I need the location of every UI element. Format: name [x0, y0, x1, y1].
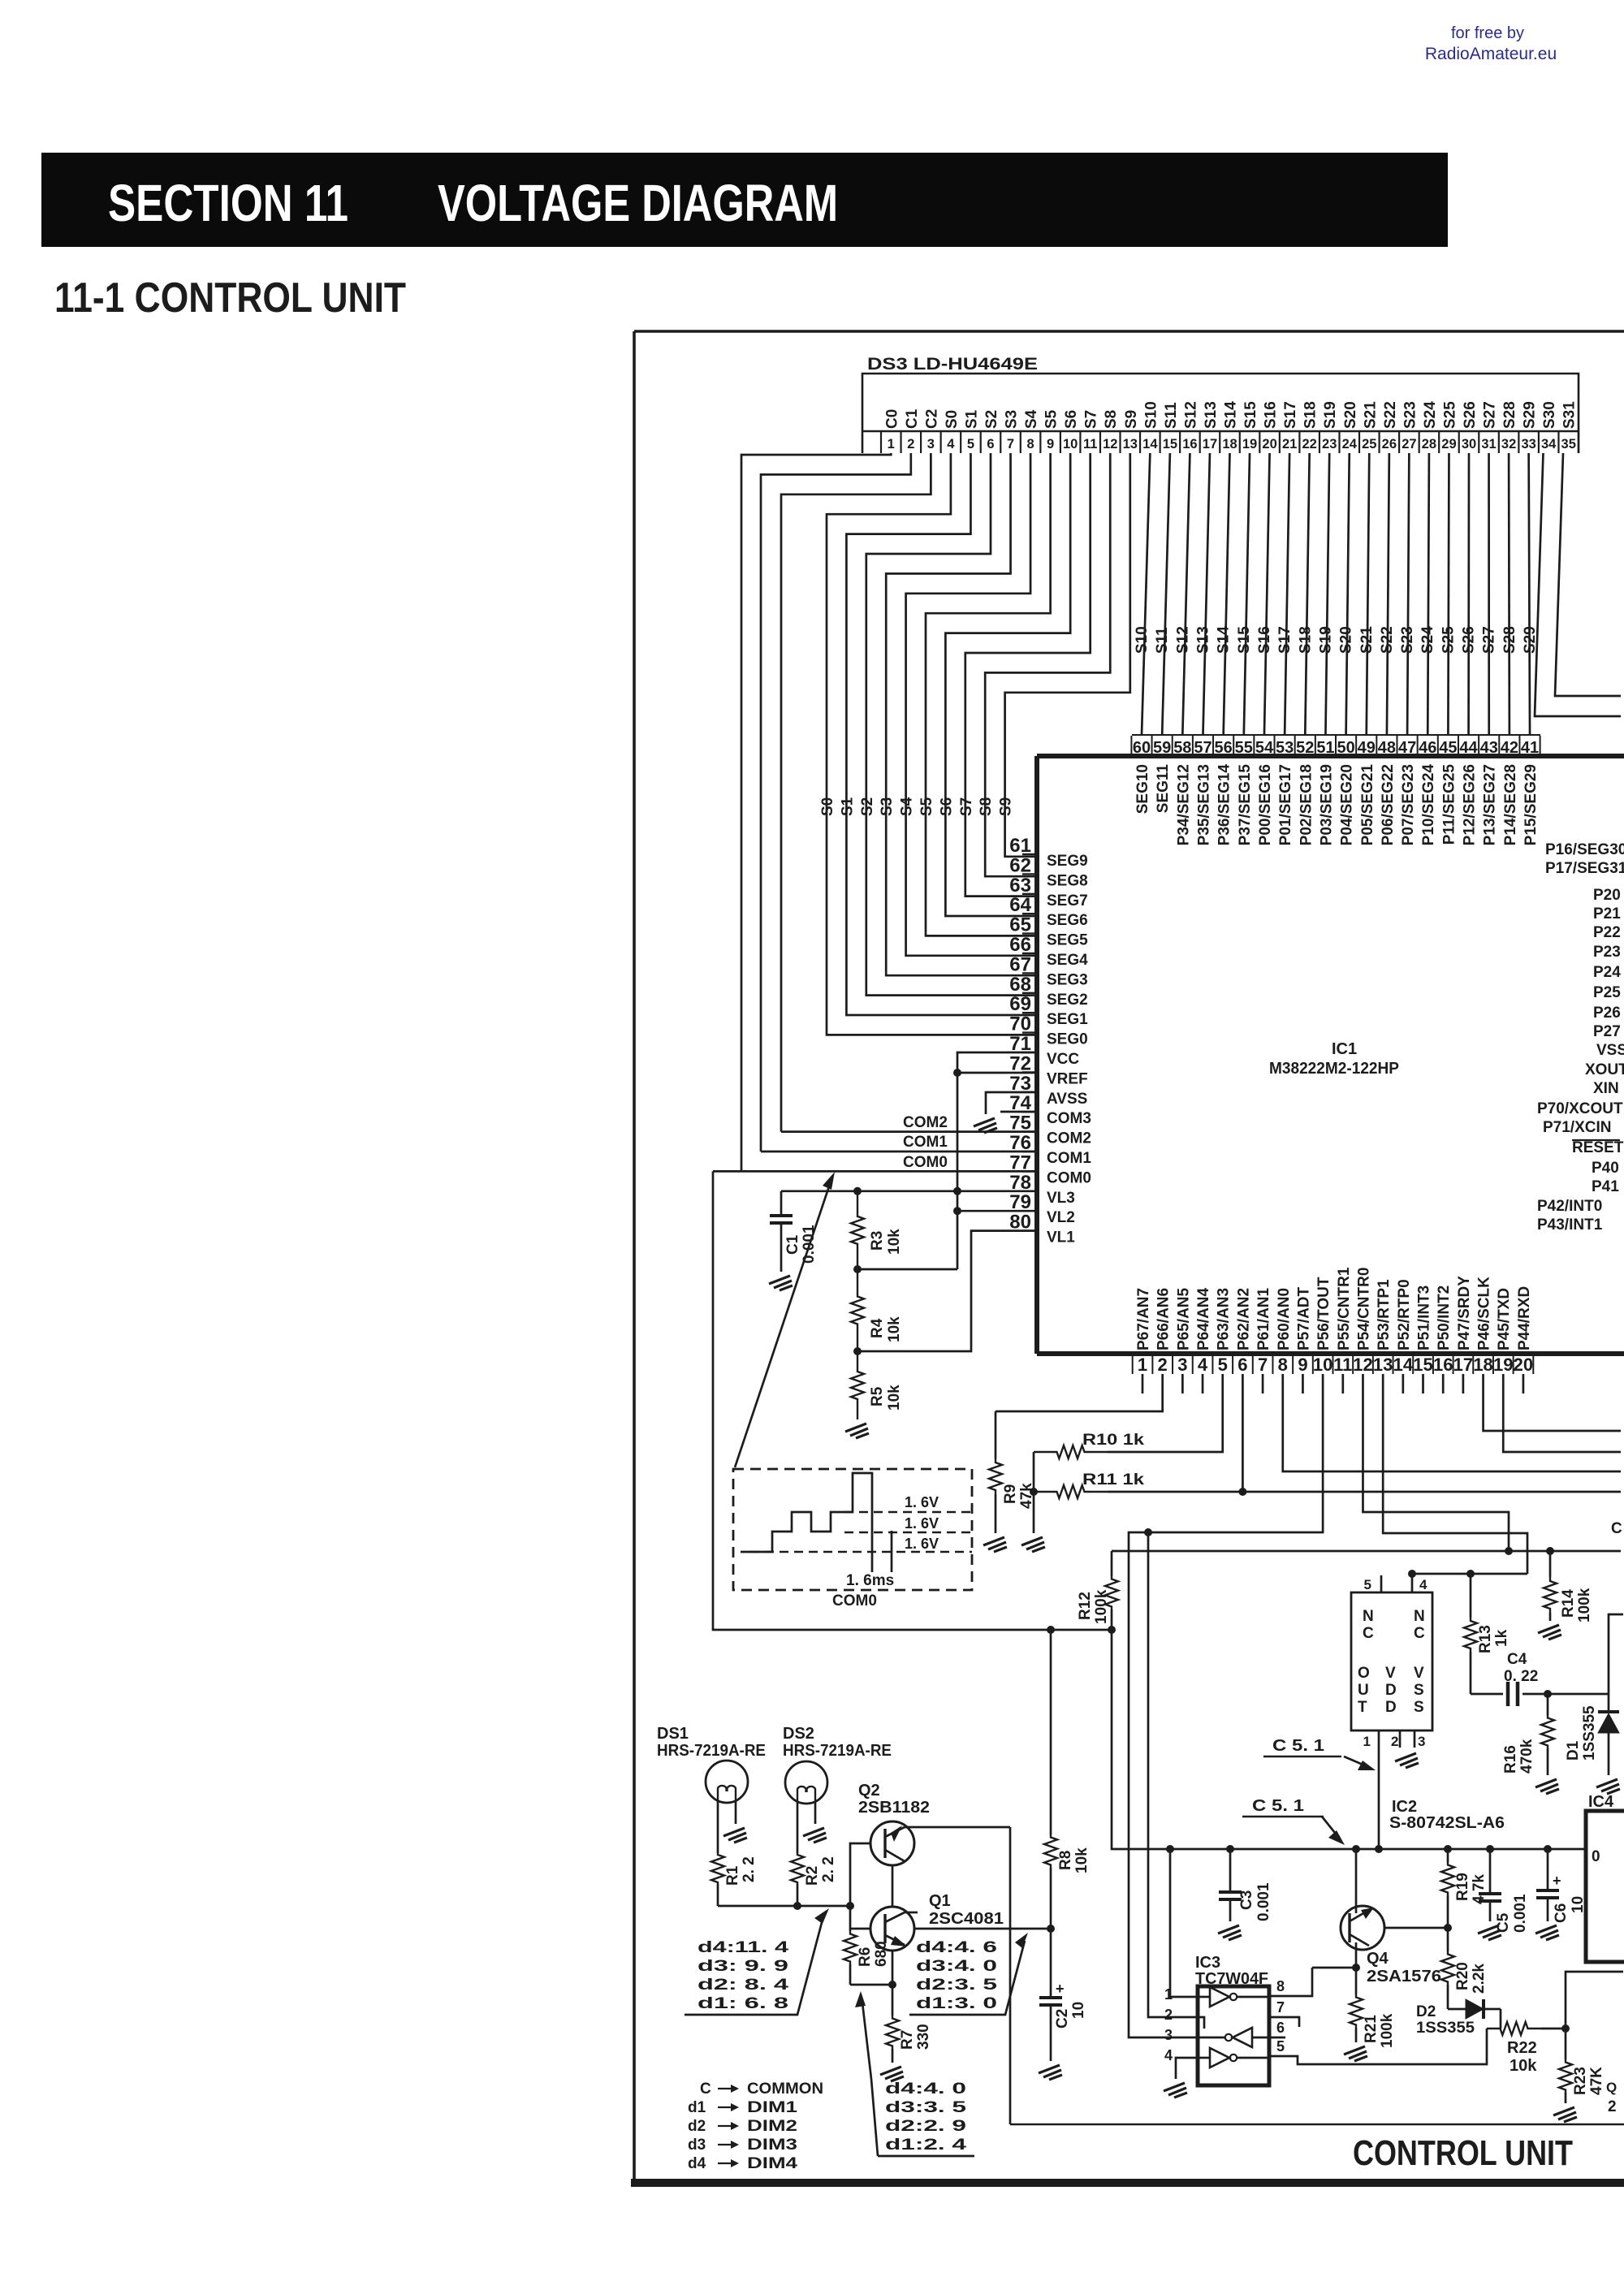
- svg-text:S14: S14: [1223, 401, 1240, 429]
- svg-text:44: 44: [1459, 739, 1478, 757]
- svg-text:S20: S20: [1338, 626, 1355, 654]
- svg-text:S1: S1: [963, 409, 980, 429]
- wire branch to IC3 pin2: [1148, 1532, 1181, 2017]
- svg-text:P21: P21: [1593, 905, 1621, 922]
- ground R9: [983, 1537, 1007, 1552]
- svg-text:S16: S16: [1256, 626, 1273, 654]
- svg-text:P14/SEG28: P14/SEG28: [1502, 764, 1519, 845]
- svg-text:S0: S0: [819, 797, 836, 816]
- IC1 top pin name labels SEG10-P15/SEG29: [1134, 764, 1540, 846]
- wire title separator line: [1010, 2124, 1624, 2126]
- svg-text:15: 15: [1163, 437, 1177, 452]
- svg-text:P57/ADT: P57/ADT: [1295, 1286, 1312, 1350]
- svg-text:+: +: [1056, 1981, 1065, 1997]
- wire R6 bottom to Q1 emitter: [850, 1984, 892, 1986]
- svg-text:C 5. 1: C 5. 1: [1252, 1797, 1304, 1815]
- resistor R22 10k: [1487, 2022, 1541, 2035]
- wire Q4 base to R19/R20 junction: [1384, 1927, 1448, 1929]
- ground C3: [1218, 1925, 1242, 1940]
- svg-text:IC2: IC2: [1392, 1798, 1417, 1816]
- svg-text:0.001: 0.001: [1255, 1882, 1272, 1921]
- svg-text:C: C: [1363, 1625, 1374, 1642]
- wire R11 to pin6 and right edge: [1108, 1491, 1621, 1493]
- svg-text:D: D: [1385, 1682, 1397, 1699]
- svg-text:P15/SEG29: P15/SEG29: [1522, 764, 1540, 845]
- resistor R9 47k: [995, 1411, 997, 1458]
- wire lamp bus to Q2 emitter rail: [850, 1843, 870, 1906]
- svg-text:P12/SEG26: P12/SEG26: [1462, 764, 1479, 845]
- svg-text:P26: P26: [1593, 1005, 1621, 1022]
- IC3 left pins 1-4: [1164, 1986, 1198, 2063]
- svg-text:SEG4: SEG4: [1047, 952, 1088, 969]
- svg-text:S5: S5: [918, 797, 935, 816]
- wire bus drop to IC3 pin1: [1170, 1849, 1181, 1997]
- svg-text:11-1 CONTROL UNIT: 11-1 CONTROL UNIT: [54, 274, 406, 322]
- svg-text:S20: S20: [1342, 401, 1359, 429]
- svg-text:C0: C0: [883, 409, 901, 429]
- svg-text:S27: S27: [1481, 626, 1498, 654]
- svg-text:P40: P40: [1592, 1160, 1619, 1177]
- svg-text:C: C: [700, 2080, 711, 2098]
- svg-text:R21: R21: [1363, 2015, 1380, 2043]
- transistor Q1 2SC4081: [870, 1907, 914, 1951]
- resistor R16 470k: [1547, 1694, 1549, 1715]
- svg-text:d4:11. 4: d4:11. 4: [698, 1939, 789, 1956]
- svg-text:22: 22: [1302, 437, 1316, 452]
- svg-text:P25: P25: [1593, 984, 1621, 1001]
- wire R4 bottom to VL1 pin 80: [857, 1231, 1037, 1351]
- svg-text:P45/TXD: P45/TXD: [1496, 1288, 1513, 1350]
- IC2 inner labels NC NC OUT VDD VSS: [1358, 1608, 1425, 1716]
- svg-text:SEG8: SEG8: [1047, 872, 1088, 889]
- svg-text:SEG11: SEG11: [1155, 764, 1172, 814]
- wire pin12 to R14 rail: [1363, 1374, 1509, 1551]
- svg-text:1: 1: [1138, 1355, 1147, 1375]
- IC IC1 M38222M2-122HP body outline: [1037, 754, 1624, 758]
- ground AVSS: [974, 1118, 997, 1133]
- svg-text:T: T: [1358, 1699, 1367, 1716]
- svg-text:P46/SCLK: P46/SCLK: [1476, 1277, 1493, 1350]
- svg-text:C1: C1: [784, 1234, 801, 1255]
- svg-text:SECTION 11: SECTION 11: [108, 174, 348, 232]
- svg-text:C4: C4: [1507, 1651, 1527, 1668]
- svg-text:16: 16: [1433, 1355, 1453, 1375]
- svg-text:55: 55: [1235, 739, 1253, 757]
- svg-text:d4:4. 6: d4:4. 6: [916, 1939, 997, 1956]
- svg-text:P63/AN3: P63/AN3: [1216, 1288, 1233, 1350]
- IC3 pin7 stub hook: [1285, 2017, 1299, 2027]
- svg-text:IC1: IC1: [1332, 1040, 1357, 1058]
- capacitor C4 0.22: [1471, 1693, 1503, 1696]
- svg-text:0.001: 0.001: [1512, 1894, 1529, 1933]
- svg-text:1SS355: 1SS355: [1581, 1705, 1598, 1761]
- svg-text:C 5. 1: C 5. 1: [1272, 1737, 1324, 1755]
- svg-text:18: 18: [1222, 437, 1237, 452]
- svg-text:P23: P23: [1593, 944, 1621, 961]
- callout line of d4:11.4 table: [685, 1916, 823, 2015]
- svg-text:50: 50: [1337, 739, 1354, 757]
- ground R5: [845, 1424, 869, 1438]
- svg-text:DS1: DS1: [657, 1725, 689, 1743]
- svg-text:R11 1k: R11 1k: [1082, 1471, 1145, 1488]
- svg-text:2: 2: [907, 437, 914, 452]
- wire pin13 to NC-block feed: [1383, 1374, 1527, 1574]
- wire COM0 into pin 77: [713, 1170, 1037, 1173]
- svg-text:680: 680: [873, 1941, 890, 1967]
- IC1 bottom pin stubs: [1142, 1374, 1523, 1393]
- svg-text:21: 21: [1282, 437, 1297, 452]
- svg-text:S21: S21: [1358, 626, 1376, 654]
- svg-text:51: 51: [1316, 739, 1334, 757]
- svg-text:S10: S10: [1134, 626, 1151, 654]
- svg-text:SEG1: SEG1: [1047, 1011, 1088, 1028]
- svg-text:P53/RTP1: P53/RTP1: [1376, 1279, 1393, 1350]
- svg-text:d3:3. 5: d3:3. 5: [885, 2099, 967, 2116]
- ground D1: [1596, 1779, 1620, 1794]
- wire R14 rail: [1112, 1550, 1621, 1553]
- svg-text:46: 46: [1419, 739, 1436, 757]
- svg-text:S3: S3: [1004, 410, 1021, 429]
- svg-text:P10/SEG24: P10/SEG24: [1420, 764, 1437, 846]
- svg-text:S22: S22: [1382, 401, 1399, 429]
- svg-text:S29: S29: [1522, 401, 1539, 429]
- svg-text:S12: S12: [1174, 626, 1191, 654]
- svg-text:M38222M2-122HP: M38222M2-122HP: [1269, 1060, 1399, 1078]
- svg-text:VL1: VL1: [1047, 1229, 1075, 1247]
- svg-text:53: 53: [1276, 739, 1294, 757]
- ground R10/R11 junction: [1021, 1537, 1045, 1552]
- schematic border top: [634, 330, 1624, 333]
- svg-text:R13: R13: [1477, 1625, 1494, 1653]
- svg-text:d3: d3: [688, 2137, 706, 2154]
- transistor Q4 2SA1576: [1341, 1906, 1384, 1950]
- svg-text:5: 5: [967, 437, 974, 452]
- svg-text:S28: S28: [1501, 401, 1518, 429]
- svg-text:25: 25: [1362, 437, 1376, 452]
- svg-text:27: 27: [1402, 437, 1416, 452]
- svg-text:IC3: IC3: [1195, 1954, 1220, 1972]
- svg-text:2. 2: 2. 2: [741, 1856, 758, 1882]
- svg-text:R12: R12: [1077, 1592, 1094, 1620]
- ground C2: [1039, 2065, 1062, 2080]
- svg-text:C2: C2: [923, 409, 940, 429]
- svg-text:P35/SEG13: P35/SEG13: [1195, 764, 1212, 845]
- IC2 bottom pins 1 2 3: [1378, 1730, 1380, 1748]
- wire to IC3 pin8: [1285, 1968, 1312, 1996]
- svg-text:VCC: VCC: [1047, 1051, 1079, 1068]
- svg-text:COM2: COM2: [1047, 1130, 1091, 1147]
- svg-text:S18: S18: [1297, 626, 1314, 654]
- svg-text:N: N: [1363, 1608, 1374, 1625]
- svg-text:R9: R9: [1002, 1484, 1019, 1504]
- svg-text:O: O: [1358, 1665, 1370, 1682]
- svg-text:P70/XCOUT: P70/XCOUT: [1537, 1100, 1623, 1117]
- svg-text:DIM1: DIM1: [747, 2099, 798, 2116]
- wire lamp bus: [718, 1905, 850, 1908]
- svg-text:SEG9: SEG9: [1047, 853, 1088, 870]
- svg-text:P03/SEG19: P03/SEG19: [1318, 764, 1335, 845]
- svg-text:P16/SEG30: P16/SEG30: [1545, 841, 1624, 858]
- svg-text:P05/SEG21: P05/SEG21: [1359, 764, 1376, 846]
- svg-text:P64/AN4: P64/AN4: [1195, 1287, 1212, 1350]
- svg-text:VOLTAGE DIAGRAM: VOLTAGE DIAGRAM: [438, 174, 838, 232]
- wire R3 bottom to VL2 rail: [857, 1268, 957, 1271]
- ground R7: [880, 2067, 904, 2081]
- wire IC3 pin5 run to R22: [1285, 2029, 1487, 2064]
- svg-text:S25: S25: [1441, 401, 1458, 429]
- svg-text:100k: 100k: [1576, 1588, 1593, 1622]
- svg-text:RESET: RESET: [1572, 1139, 1624, 1156]
- svg-text:7: 7: [1276, 1999, 1285, 2016]
- svg-text:SEG5: SEG5: [1047, 932, 1088, 949]
- svg-text:d3:4. 0: d3:4. 0: [916, 1958, 997, 1975]
- svg-text:10: 10: [1070, 2002, 1087, 2019]
- svg-text:N: N: [1414, 1608, 1425, 1625]
- svg-text:S11: S11: [1154, 627, 1171, 654]
- wires C0,C1,C2 nested route to COM pins: [741, 453, 891, 1171]
- svg-text:SEG0: SEG0: [1047, 1031, 1088, 1048]
- diode D2 1SS355: [1448, 2008, 1466, 2011]
- svg-text:4: 4: [1164, 2047, 1173, 2063]
- svg-text:1. 6V: 1. 6V: [905, 1494, 939, 1510]
- svg-text:P04/SEG20: P04/SEG20: [1339, 764, 1356, 845]
- svg-text:P52/RTP0: P52/RTP0: [1396, 1279, 1413, 1350]
- wire D1 top to right edge: [1609, 1614, 1623, 1694]
- waveform annotation dashed box COM0: [733, 1469, 972, 1590]
- resistor R3 10k: [851, 1191, 864, 1269]
- wire IC3 pin4 ground: [1176, 2058, 1181, 2079]
- lamp DS2: [785, 1761, 827, 1804]
- svg-text:R4: R4: [869, 1318, 886, 1338]
- svg-text:20: 20: [1262, 437, 1276, 452]
- IC3 inverter 2 (flipped): [1233, 2028, 1252, 2047]
- svg-text:R20: R20: [1454, 1962, 1471, 1990]
- svg-text:SEG10: SEG10: [1134, 764, 1151, 814]
- svg-text:R1: R1: [724, 1865, 741, 1886]
- svg-text:S: S: [1414, 1682, 1424, 1699]
- wire pin5 to R10: [1108, 1374, 1223, 1452]
- schematic border bottom thick: [631, 2179, 1624, 2187]
- svg-text:DIM4: DIM4: [747, 2155, 798, 2172]
- arrow from waveform box to COM0 wire: [735, 1179, 831, 1467]
- svg-text:for free by: for free by: [1451, 24, 1524, 42]
- svg-text:28: 28: [1422, 437, 1436, 452]
- svg-text:R7: R7: [899, 2030, 916, 2050]
- IC1 bottom pin name labels P67/AN7-P44/RXD: [1135, 1267, 1533, 1350]
- IC3 inverter 1: [1210, 1987, 1229, 2007]
- svg-text:S2: S2: [859, 797, 876, 816]
- svg-text:S0: S0: [944, 410, 961, 429]
- svg-text:42: 42: [1501, 739, 1518, 757]
- capacitor C6 10 polarized: [1547, 1849, 1549, 1890]
- svg-text:S22: S22: [1379, 626, 1396, 654]
- svg-text:2SA1576: 2SA1576: [1367, 1968, 1441, 1985]
- svg-text:10k: 10k: [886, 1316, 903, 1342]
- svg-text:1k: 1k: [1493, 1629, 1510, 1647]
- svg-text:S12: S12: [1182, 401, 1199, 429]
- svg-text:7: 7: [1258, 1355, 1268, 1375]
- svg-text:34: 34: [1541, 437, 1557, 452]
- svg-text:P07/SEG23: P07/SEG23: [1400, 764, 1417, 845]
- svg-text:S11: S11: [1163, 402, 1180, 429]
- svg-text:VL2: VL2: [1047, 1209, 1075, 1226]
- svg-text:VREF: VREF: [1047, 1070, 1088, 1087]
- ground C1: [769, 1276, 793, 1290]
- svg-text:S6: S6: [938, 797, 955, 816]
- wire Q2 collector to right rail: [905, 1826, 1010, 1829]
- ground R23: [1553, 2107, 1577, 2122]
- svg-text:P50/INT2: P50/INT2: [1436, 1285, 1453, 1350]
- svg-text:COM3: COM3: [1047, 1110, 1091, 1127]
- svg-text:d3: 9. 9: d3: 9. 9: [698, 1958, 788, 1975]
- wire junction up to right edge: [1566, 1972, 1623, 2029]
- voltage table d4:11.4: [698, 1939, 789, 2012]
- svg-text:S14: S14: [1216, 626, 1233, 654]
- svg-text:d1: d1: [688, 2099, 706, 2116]
- svg-text:S6: S6: [1063, 410, 1080, 429]
- svg-text:4.7k: 4.7k: [1471, 1874, 1488, 1904]
- svg-text:17: 17: [1453, 1355, 1473, 1375]
- resistor R1 2.2: [711, 1853, 724, 1884]
- svg-text:Q2: Q2: [858, 1782, 880, 1800]
- svg-text:S31: S31: [1561, 401, 1579, 429]
- wire Q4 collector junction: [1352, 1964, 1360, 1972]
- svg-text:10: 10: [1313, 1355, 1332, 1375]
- svg-text:9: 9: [1047, 437, 1054, 452]
- svg-text:8: 8: [1276, 1978, 1285, 1994]
- svg-text:3: 3: [1164, 2027, 1173, 2043]
- svg-text:31: 31: [1481, 437, 1496, 452]
- diode D1 1SS355: [1608, 1694, 1610, 1712]
- svg-text:C: C: [1414, 1625, 1425, 1642]
- svg-text:R14: R14: [1560, 1589, 1577, 1618]
- svg-text:10k: 10k: [1510, 2057, 1537, 2075]
- svg-text:P06/SEG22: P06/SEG22: [1380, 764, 1397, 845]
- svg-text:RadioAmateur.eu: RadioAmateur.eu: [1425, 45, 1557, 63]
- svg-text:S13: S13: [1194, 626, 1212, 654]
- svg-text:P20: P20: [1593, 887, 1621, 904]
- svg-text:COM0: COM0: [1047, 1169, 1091, 1186]
- svg-text:43: 43: [1480, 739, 1498, 757]
- svg-text:0: 0: [1592, 1848, 1600, 1865]
- svg-text:COM1: COM1: [903, 1134, 948, 1151]
- svg-text:COM0: COM0: [832, 1592, 877, 1609]
- wire VCC/VREF rail: [957, 1052, 1037, 1269]
- svg-text:P62/AN2: P62/AN2: [1235, 1288, 1252, 1350]
- wire S31 to right edge: [1555, 453, 1621, 696]
- svg-text:R23: R23: [1572, 2067, 1589, 2095]
- svg-text:S18: S18: [1302, 401, 1319, 429]
- wires S10-S29 vertical drops to IC1 top pins: [1142, 453, 1150, 735]
- svg-text:17: 17: [1203, 437, 1217, 452]
- svg-text:24: 24: [1342, 437, 1358, 452]
- svg-text:V: V: [1414, 1665, 1424, 1682]
- svg-text:3: 3: [1418, 1734, 1425, 1749]
- svg-text:30: 30: [1462, 437, 1476, 452]
- svg-text:10k: 10k: [886, 1229, 903, 1255]
- svg-text:d2: 8. 4: d2: 8. 4: [698, 1977, 789, 1994]
- junction R22/R23: [1561, 2024, 1570, 2033]
- svg-text:S17: S17: [1276, 626, 1294, 654]
- resistor R2 2.2: [791, 1853, 804, 1884]
- svg-text:R19: R19: [1454, 1873, 1471, 1901]
- resistor R11 1k: [1034, 1485, 1108, 1498]
- svg-text:P43/INT1: P43/INT1: [1537, 1216, 1603, 1234]
- IC1 top pin number row 60-41: [1131, 735, 1540, 757]
- svg-text:P56/TOUT: P56/TOUT: [1315, 1277, 1332, 1350]
- svg-text:3: 3: [927, 437, 935, 452]
- IC IC2 S-80742SL-A6 body: [1351, 1592, 1432, 1730]
- labels S10-S29 on wires: [1134, 626, 1539, 654]
- svg-text:20: 20: [1514, 1355, 1533, 1375]
- svg-text:VSS: VSS: [1596, 1042, 1624, 1059]
- svg-text:S23: S23: [1399, 626, 1416, 654]
- svg-text:P67/AN7: P67/AN7: [1135, 1288, 1152, 1350]
- svg-text:TC7W04F: TC7W04F: [1195, 1970, 1268, 1988]
- svg-text:59: 59: [1153, 739, 1171, 757]
- svg-text:1SS355: 1SS355: [1416, 2020, 1475, 2037]
- wire pin18 to right edge: [1484, 1374, 1621, 1431]
- svg-text:16: 16: [1182, 437, 1197, 452]
- svg-text:11: 11: [1083, 437, 1097, 452]
- svg-text:R22: R22: [1507, 2039, 1537, 2057]
- svg-text:P37/SEG15: P37/SEG15: [1237, 764, 1254, 846]
- svg-text:S28: S28: [1501, 626, 1518, 654]
- ground IC3 pin4: [1164, 2083, 1187, 2098]
- callout line of d4:4.6 table: [909, 1941, 1025, 2015]
- section header black bar: [41, 153, 1448, 247]
- wire VL3 rail: [781, 1190, 1037, 1192]
- resistor R12 100k: [1111, 1551, 1113, 1576]
- svg-text:P66/AN6: P66/AN6: [1155, 1288, 1173, 1350]
- capacitor C2 10 polarized: [1050, 1929, 1052, 1998]
- svg-text:P02/SEG18: P02/SEG18: [1298, 764, 1315, 845]
- svg-text:6: 6: [987, 437, 994, 452]
- svg-text:10k: 10k: [1073, 1847, 1091, 1873]
- svg-text:33: 33: [1521, 437, 1535, 452]
- svg-text:8: 8: [1278, 1355, 1288, 1375]
- wire pin4 rail: [1412, 1573, 1527, 1575]
- svg-text:C2: C2: [1054, 2009, 1071, 2029]
- svg-text:4: 4: [947, 437, 955, 452]
- resistor R14 100k: [1549, 1551, 1552, 1577]
- svg-text:P55/CNTR1: P55/CNTR1: [1336, 1267, 1353, 1350]
- resistor R6 680: [849, 1906, 852, 1931]
- connector DS3 pin name labels C0-S31: [883, 401, 1578, 429]
- svg-text:d4:4. 0: d4:4. 0: [885, 2080, 966, 2098]
- resistor R10 1k: [1034, 1445, 1108, 1458]
- svg-text:C6: C6: [1553, 1903, 1570, 1923]
- svg-text:Q4: Q4: [1367, 1950, 1389, 1968]
- svg-text:d2:2. 9: d2:2. 9: [885, 2118, 966, 2135]
- wire Q2 right rail down: [1009, 1827, 1012, 2124]
- svg-text:10k: 10k: [886, 1385, 903, 1411]
- svg-text:2: 2: [1391, 1734, 1398, 1749]
- resistor R7 330: [892, 1985, 894, 2016]
- svg-text:U: U: [1358, 1682, 1369, 1699]
- svg-text:S8: S8: [978, 797, 995, 816]
- svg-text:S30: S30: [1541, 401, 1558, 429]
- svg-text:47K: 47K: [1588, 2067, 1605, 2095]
- IC3 right pins 8-5: [1269, 1978, 1285, 2056]
- svg-text:3: 3: [1177, 1355, 1187, 1375]
- svg-text:S: S: [1414, 1699, 1424, 1716]
- capacitor C3 0.001: [1229, 1849, 1232, 1892]
- svg-text:C: C: [1611, 1520, 1622, 1537]
- svg-text:330: 330: [915, 2024, 932, 2050]
- svg-text:8: 8: [1026, 437, 1034, 452]
- wire 5.1V bus: [1112, 1630, 1586, 1849]
